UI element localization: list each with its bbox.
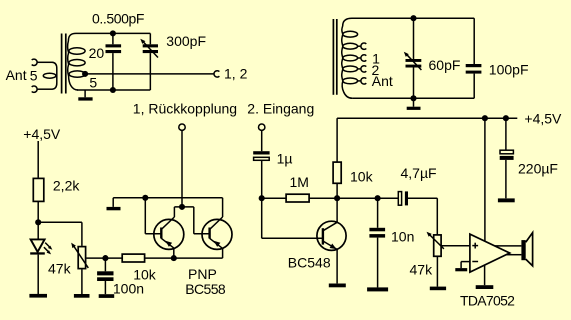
svg-text:BC558: BC558 [185, 281, 226, 297]
svg-text:1M: 1M [290, 174, 309, 190]
svg-text:10n: 10n [391, 228, 414, 244]
svg-text:2,2k: 2,2k [53, 178, 80, 194]
svg-text:2. Eingang: 2. Eingang [247, 101, 314, 117]
svg-text:5: 5 [30, 68, 38, 84]
svg-text:220µF: 220µF [518, 161, 558, 177]
svg-text:1, 2: 1, 2 [224, 65, 248, 81]
svg-text:BC548: BC548 [288, 255, 331, 271]
svg-text:100pF: 100pF [489, 61, 529, 77]
svg-text:Ant: Ant [6, 67, 27, 83]
svg-text:1, Rückkopplung: 1, Rückkopplung [133, 101, 237, 117]
svg-text:1µ: 1µ [277, 150, 293, 166]
svg-text:+4,5V: +4,5V [524, 110, 562, 126]
svg-text:300pF: 300pF [166, 33, 206, 49]
svg-text:60pF: 60pF [429, 57, 461, 73]
svg-text:4,7µF: 4,7µF [401, 165, 437, 181]
svg-text:47k: 47k [48, 261, 72, 277]
svg-text:+4,5V: +4,5V [23, 126, 61, 142]
svg-text:100n: 100n [113, 280, 144, 296]
svg-text:TDA7052: TDA7052 [460, 293, 515, 309]
svg-text:10k: 10k [350, 168, 374, 184]
svg-text:PNP: PNP [188, 266, 217, 282]
svg-text:Ant: Ant [372, 73, 393, 89]
svg-text:47k: 47k [410, 261, 434, 277]
svg-text:5: 5 [89, 74, 97, 90]
svg-text:0..500pF: 0..500pF [92, 10, 144, 26]
svg-text:20: 20 [89, 45, 105, 61]
